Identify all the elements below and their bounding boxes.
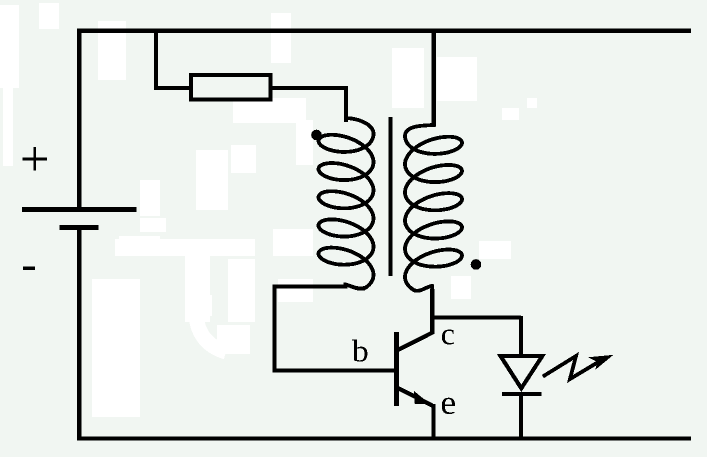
transistor collector lead (397, 333, 433, 351)
transistor base bar (394, 332, 399, 406)
label: battery minus (23, 267, 35, 271)
wire: emitter to bottom rail (431, 404, 435, 440)
label b (base) (352, 340, 367, 362)
LED cathode lead (519, 394, 523, 440)
wire: bottom rail (77, 437, 691, 441)
transformer core (389, 117, 393, 276)
LED light emission arrow (545, 355, 614, 379)
wire: top rail (77, 28, 691, 32)
inductor L2 (transformer secondary winding) (405, 125, 462, 291)
wire: left rail lower (battery - lead) (77, 227, 82, 441)
wire: resistor to primary winding (271, 88, 346, 120)
LED triangle (501, 356, 543, 388)
wire: drop from top rail to resistor (156, 31, 190, 88)
wire: left rail upper (battery + lead) (77, 28, 82, 209)
transistor Q1 (397, 332, 434, 407)
LED cathode bar (502, 392, 541, 396)
LED anode lead (519, 316, 523, 354)
polarity dot (primary) (311, 130, 322, 141)
polarity dot (secondary) (471, 259, 482, 270)
resistor R1 (191, 75, 271, 100)
battery B1 (22, 210, 137, 228)
transistor emitter arrowhead (414, 391, 430, 404)
wire: primary bottom to base loop (274, 287, 396, 371)
label c (collector) (442, 330, 454, 345)
inductor L1 (transformer primary winding) (319, 118, 374, 289)
label: battery plus (23, 147, 47, 171)
wire: collector node to LED anode (431, 316, 522, 320)
label e (emitter) (442, 398, 455, 414)
LED D1 (501, 316, 543, 440)
wire: secondary top lead from top rail (432, 28, 436, 126)
transistor emitter lead (397, 388, 434, 407)
wire: secondary bottom lead to collector node (430, 289, 434, 334)
